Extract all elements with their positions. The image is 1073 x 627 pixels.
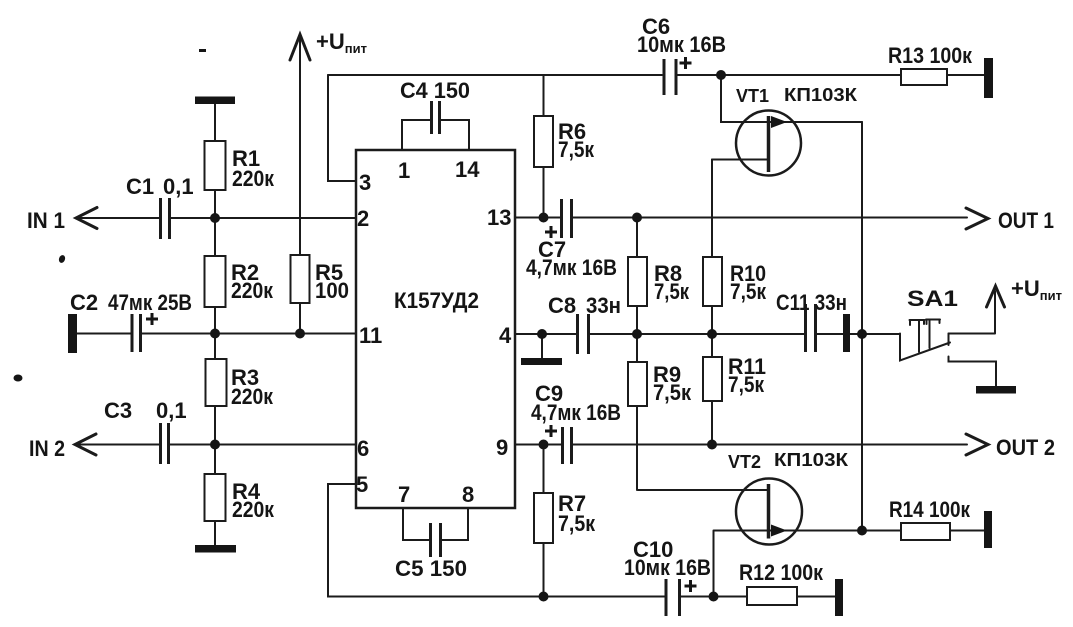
svg-text:1: 1 bbox=[398, 158, 410, 183]
svg-text:6: 6 bbox=[357, 436, 369, 461]
svg-text:7,5к: 7,5к bbox=[728, 372, 765, 397]
svg-text:C4 150: C4 150 bbox=[400, 78, 470, 103]
svg-text:7,5к: 7,5к bbox=[730, 279, 767, 304]
svg-text:0,1: 0,1 bbox=[156, 398, 187, 423]
svg-text:C1: C1 bbox=[126, 174, 154, 199]
svg-text:C2: C2 bbox=[70, 290, 98, 315]
svg-text:C11 33н: C11 33н bbox=[776, 290, 847, 315]
svg-text:4: 4 bbox=[499, 323, 512, 348]
svg-text:10мк 16В: 10мк 16В bbox=[624, 555, 711, 580]
svg-text:R14 100к: R14 100к bbox=[889, 497, 971, 522]
svg-text:47мк 25В: 47мк 25В bbox=[108, 290, 192, 315]
svg-text:2: 2 bbox=[357, 206, 369, 231]
svg-text:C3: C3 bbox=[104, 398, 132, 423]
svg-text:7: 7 bbox=[398, 482, 410, 507]
svg-text:C8: C8 bbox=[548, 293, 576, 318]
svg-text:OUT 2: OUT 2 bbox=[996, 435, 1055, 460]
svg-text:14: 14 bbox=[455, 157, 480, 182]
svg-text:220к: 220к bbox=[232, 166, 275, 191]
svg-text:4,7мк 16В: 4,7мк 16В bbox=[526, 255, 617, 280]
svg-text:OUT 1: OUT 1 bbox=[998, 208, 1054, 233]
svg-text:7,5к: 7,5к bbox=[654, 279, 690, 304]
svg-text:R12 100к: R12 100к bbox=[739, 560, 824, 585]
svg-text:3: 3 bbox=[359, 170, 371, 195]
svg-text:220к: 220к bbox=[232, 497, 275, 522]
svg-text:VT2: VT2 bbox=[728, 452, 761, 472]
svg-text:4,7мк 16В: 4,7мк 16В bbox=[531, 400, 621, 425]
svg-text:8: 8 bbox=[462, 482, 474, 507]
svg-text:IN 2: IN 2 bbox=[29, 436, 65, 461]
svg-text:11: 11 bbox=[359, 323, 382, 348]
svg-text:220к: 220к bbox=[231, 278, 274, 303]
svg-text:9: 9 bbox=[496, 435, 508, 460]
svg-text:33н: 33н bbox=[586, 293, 621, 318]
svg-text:7,5к: 7,5к bbox=[653, 380, 692, 405]
svg-text:220к: 220к bbox=[231, 384, 274, 409]
svg-text:SA1: SA1 bbox=[907, 286, 958, 311]
svg-text:10мк 16В: 10мк 16В bbox=[637, 32, 726, 57]
svg-text:КП103К: КП103К bbox=[784, 85, 858, 105]
svg-text:КП103К: КП103К bbox=[774, 450, 849, 470]
svg-text:VT1: VT1 bbox=[736, 86, 769, 106]
svg-text:13: 13 bbox=[487, 205, 511, 230]
svg-text:7,5к: 7,5к bbox=[558, 511, 596, 536]
svg-text:R13 100к: R13 100к bbox=[888, 43, 973, 68]
svg-text:C5 150: C5 150 bbox=[395, 556, 467, 581]
svg-text:IN 1: IN 1 bbox=[27, 208, 65, 233]
svg-text:5: 5 bbox=[356, 472, 368, 497]
svg-text:100: 100 bbox=[315, 278, 349, 303]
svg-text:7,5к: 7,5к bbox=[558, 137, 595, 162]
svg-text:0,1: 0,1 bbox=[163, 174, 194, 199]
svg-text:К157УД2: К157УД2 bbox=[394, 288, 479, 313]
